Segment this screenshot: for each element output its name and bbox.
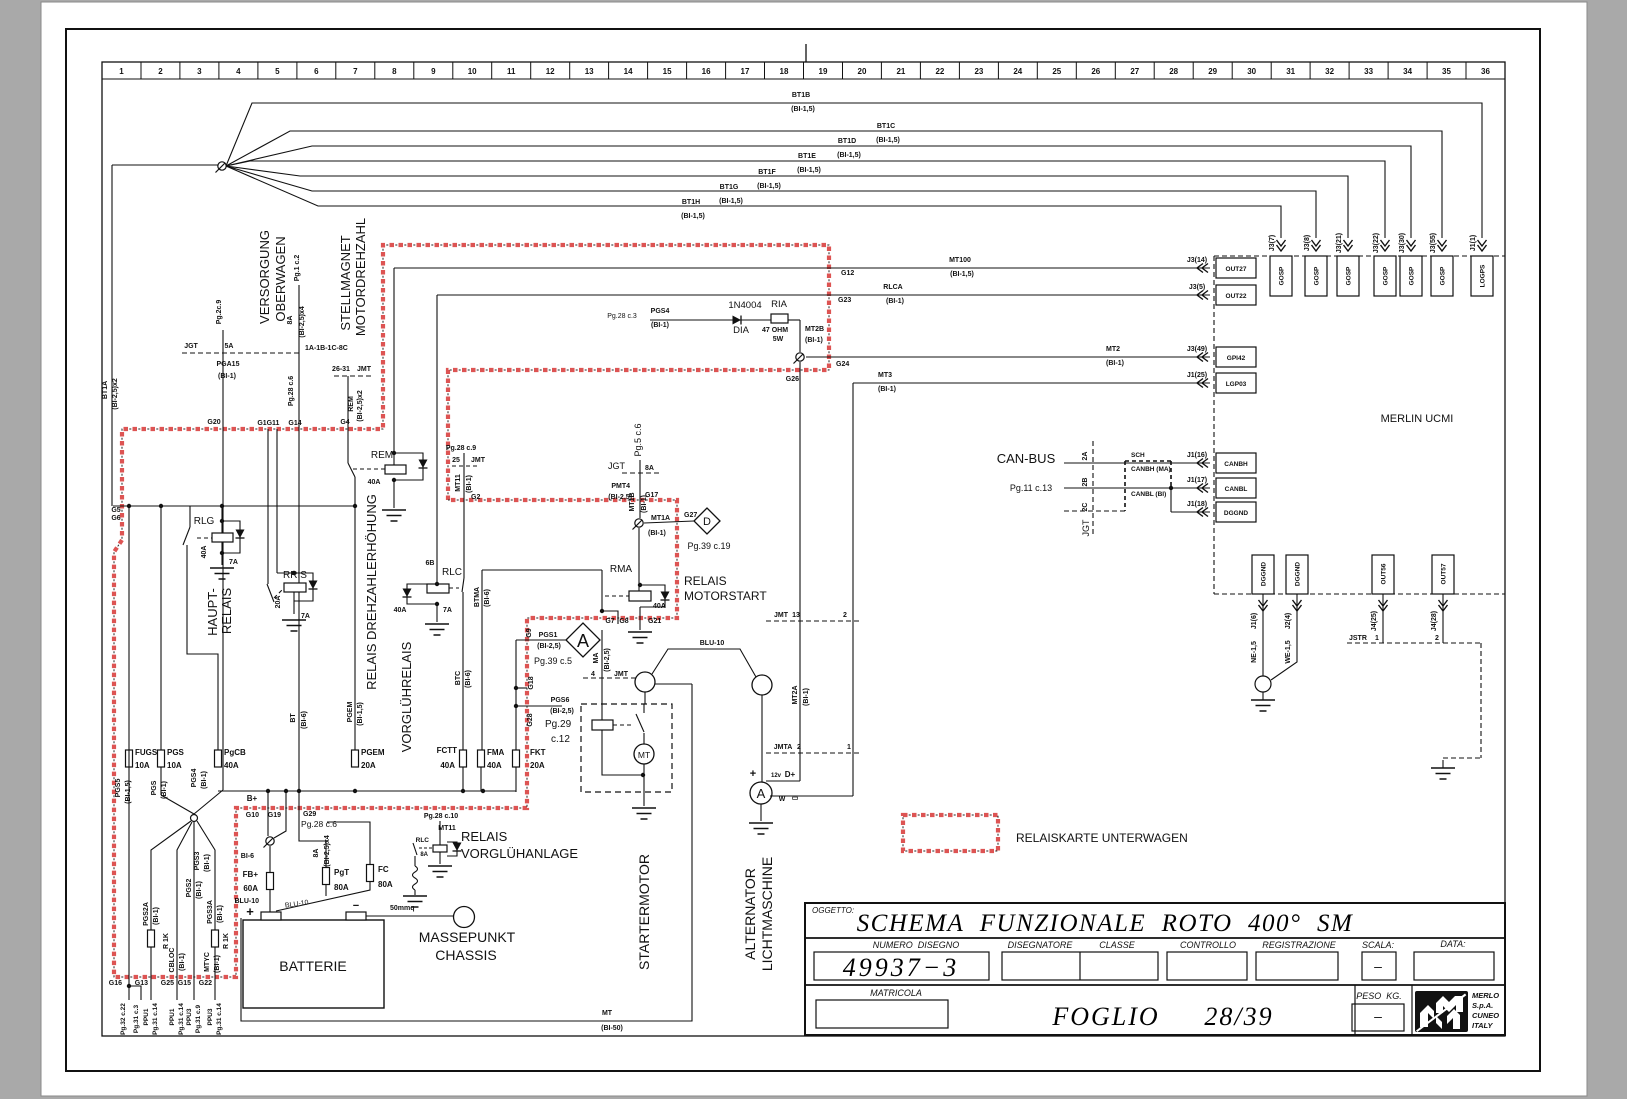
svg-text:G5: G5	[111, 507, 120, 514]
svg-text:G11: G11	[267, 420, 280, 427]
svg-text:+: +	[246, 904, 254, 919]
svg-text:BATTERIE: BATTERIE	[279, 958, 346, 974]
svg-text:Pg.2c.9: Pg.2c.9	[216, 300, 223, 325]
svg-text:MT2: MT2	[1106, 346, 1120, 353]
svg-text:REGISTRAZIONE: REGISTRAZIONE	[1262, 940, 1337, 950]
svg-text:DGGND: DGGND	[1295, 562, 1302, 587]
svg-text:MT: MT	[638, 750, 650, 760]
svg-text:GOSP: GOSP	[1314, 266, 1321, 285]
svg-text:G21: G21	[648, 618, 661, 625]
svg-text:OUT57: OUT57	[1441, 563, 1448, 584]
svg-text:(BI-1,5): (BI-1,5)	[797, 167, 821, 174]
svg-text:31: 31	[1286, 67, 1295, 76]
svg-text:RELAIS: RELAIS	[684, 574, 727, 588]
svg-text:J2(4): J2(4)	[1285, 613, 1292, 629]
svg-text:80A: 80A	[334, 883, 349, 892]
svg-text:J3(8): J3(8)	[1304, 235, 1311, 251]
svg-text:(BI-1): (BI-1)	[886, 298, 904, 305]
svg-text:5: 5	[275, 67, 280, 76]
svg-text:28/39: 28/39	[1204, 1002, 1273, 1031]
svg-text:20A: 20A	[275, 596, 282, 609]
svg-text:PGS2: PGS2	[186, 879, 193, 898]
svg-text:Pg.31 c.3: Pg.31 c.3	[133, 1005, 140, 1034]
svg-text:30: 30	[1247, 67, 1256, 76]
svg-text:12: 12	[546, 67, 555, 76]
svg-text:32: 32	[1325, 67, 1334, 76]
svg-text:MT3: MT3	[878, 372, 892, 379]
svg-text:RLC: RLC	[442, 567, 462, 578]
svg-text:▭: ▭	[792, 795, 799, 802]
svg-text:2A: 2A	[1082, 452, 1089, 461]
svg-text:1N4004: 1N4004	[728, 300, 761, 311]
svg-text:40A: 40A	[201, 546, 208, 559]
svg-text:MTYC: MTYC	[204, 952, 211, 972]
svg-text:PGEM: PGEM	[347, 702, 354, 723]
svg-text:Pg.39 c.5: Pg.39 c.5	[534, 656, 572, 666]
svg-text:MATRICOLA: MATRICOLA	[870, 988, 922, 998]
svg-text:RELAISKARTE UNTERWAGEN: RELAISKARTE UNTERWAGEN	[1016, 831, 1188, 845]
svg-text:PPU3: PPU3	[207, 1008, 214, 1025]
svg-text:W: W	[779, 796, 786, 803]
svg-text:G14: G14	[288, 420, 301, 427]
svg-text:MT: MT	[602, 1010, 613, 1017]
svg-text:2: 2	[797, 744, 801, 751]
svg-text:D: D	[703, 516, 711, 528]
svg-text:MOTORDREHZAHL: MOTORDREHZAHL	[353, 218, 368, 336]
svg-text:G18: G18	[528, 676, 535, 689]
svg-text:CBLOC: CBLOC	[169, 948, 176, 973]
svg-text:(BI-6): (BI-6)	[484, 589, 491, 607]
svg-text:(BI-2,5): (BI-2,5)	[537, 643, 561, 650]
svg-text:J1(17): J1(17)	[1187, 477, 1207, 484]
svg-text:VORGLÜHANLAGE: VORGLÜHANLAGE	[461, 846, 578, 861]
svg-text:28: 28	[1169, 67, 1178, 76]
svg-text:Pg.29: Pg.29	[545, 719, 572, 730]
svg-text:(BI-1): (BI-1)	[204, 854, 211, 872]
svg-text:FKT: FKT	[530, 748, 546, 757]
svg-text:BTC: BTC	[455, 671, 462, 685]
svg-text:G6: G6	[111, 515, 120, 522]
svg-text:RLC: RLC	[416, 837, 430, 844]
svg-text:35: 35	[1442, 67, 1451, 76]
svg-text:GOSP: GOSP	[1409, 266, 1416, 285]
svg-text:G2: G2	[471, 494, 480, 501]
svg-text:OGGETTO:: OGGETTO:	[812, 906, 854, 915]
svg-text:G26: G26	[786, 376, 799, 383]
svg-text:80A: 80A	[378, 880, 393, 889]
svg-text:CLASSE: CLASSE	[1099, 940, 1136, 950]
svg-text:G24: G24	[836, 361, 849, 368]
svg-text:Pg.31 c.14: Pg.31 c.14	[216, 1003, 223, 1035]
svg-text:2: 2	[158, 67, 163, 76]
svg-text:13: 13	[585, 67, 594, 76]
svg-text:J3(49): J3(49)	[1187, 346, 1207, 353]
svg-text:PGS2A: PGS2A	[143, 902, 150, 926]
svg-text:BT1D: BT1D	[838, 138, 856, 145]
svg-text:G7: G7	[605, 618, 614, 625]
svg-text:MA: MA	[593, 653, 600, 664]
svg-text:1A-1B-1C-8C: 1A-1B-1C-8C	[305, 345, 348, 352]
svg-text:G23: G23	[838, 297, 851, 304]
svg-text:J3(55): J3(55)	[1430, 233, 1437, 253]
svg-text:(BI-1): (BI-1)	[201, 771, 208, 789]
svg-text:(BI-1,5): (BI-1,5)	[950, 271, 974, 278]
svg-text:J1(6): J1(6)	[1251, 613, 1258, 629]
svg-text:(BI-1,5): (BI-1,5)	[837, 152, 861, 159]
svg-text:18: 18	[780, 67, 789, 76]
svg-text:(BI-1,5): (BI-1,5)	[757, 183, 781, 190]
svg-text:GOSP: GOSP	[1383, 266, 1390, 285]
svg-text:BT1E: BT1E	[798, 153, 816, 160]
svg-text:PPU1: PPU1	[143, 1008, 150, 1025]
svg-text:G9: G9	[526, 628, 533, 637]
svg-text:MT2A: MT2A	[792, 685, 799, 704]
svg-text:Pg.39 c.19: Pg.39 c.19	[687, 541, 730, 551]
svg-text:G16: G16	[109, 980, 122, 987]
svg-text:PgT: PgT	[334, 868, 349, 877]
svg-text:2B: 2B	[1082, 478, 1089, 487]
svg-text:J1(16): J1(16)	[1187, 452, 1207, 459]
svg-text:NUMERO DISEGNO: NUMERO DISEGNO	[873, 940, 960, 950]
svg-text:(BI-1): (BI-1)	[805, 337, 823, 344]
svg-text:49937−3: 49937−3	[843, 953, 960, 982]
svg-text:G1: G1	[257, 420, 266, 427]
svg-text:DGGND: DGGND	[1224, 510, 1249, 517]
svg-text:CANBL: CANBL	[1225, 486, 1248, 493]
svg-text:J3(30): J3(30)	[1399, 233, 1406, 253]
svg-text:(BI-1): (BI-1)	[214, 955, 221, 973]
svg-text:2: 2	[843, 612, 847, 619]
svg-text:(BI-1): (BI-1)	[218, 373, 236, 380]
svg-text:PMT4: PMT4	[611, 483, 630, 490]
svg-text:JGT: JGT	[184, 343, 198, 350]
svg-text:25: 25	[1052, 67, 1061, 76]
svg-text:Pg.28 c.10: Pg.28 c.10	[424, 813, 458, 820]
svg-text:PPU1: PPU1	[169, 1008, 176, 1025]
svg-text:25: 25	[452, 457, 460, 464]
svg-text:19: 19	[819, 67, 828, 76]
svg-text:24: 24	[1013, 67, 1022, 76]
svg-text:40A: 40A	[440, 761, 455, 770]
svg-text:7A: 7A	[443, 607, 452, 614]
svg-text:G8: G8	[619, 618, 628, 625]
svg-text:PGS4: PGS4	[191, 769, 198, 788]
svg-text:5W: 5W	[773, 336, 784, 343]
svg-text:8A: 8A	[313, 849, 320, 858]
svg-text:DIA: DIA	[733, 325, 750, 336]
svg-text:27: 27	[1130, 67, 1139, 76]
svg-text:60A: 60A	[243, 884, 258, 893]
svg-text:–: –	[1374, 1008, 1382, 1024]
svg-text:(BI-1): (BI-1)	[651, 322, 669, 329]
svg-text:10A: 10A	[167, 761, 182, 770]
svg-text:(BI-1): (BI-1)	[648, 530, 666, 537]
svg-text:GOSP: GOSP	[1279, 266, 1286, 285]
svg-text:8: 8	[392, 67, 397, 76]
svg-text:(BI-1,5): (BI-1,5)	[876, 137, 900, 144]
svg-text:14: 14	[624, 67, 633, 76]
svg-text:G12: G12	[841, 270, 854, 277]
svg-text:G25: G25	[161, 980, 174, 987]
svg-text:7A: 7A	[301, 613, 310, 620]
svg-text:BT1B: BT1B	[792, 92, 810, 99]
svg-text:PGS3: PGS3	[194, 852, 201, 871]
svg-text:22: 22	[935, 67, 944, 76]
svg-text:2: 2	[1435, 635, 1439, 642]
svg-text:–: –	[1374, 958, 1382, 974]
svg-text:(BI-1): (BI-1)	[217, 905, 224, 923]
svg-text:R 1K: R 1K	[163, 933, 170, 949]
svg-text:(BI-1): (BI-1)	[179, 953, 186, 971]
svg-text:Pg.28 c.3: Pg.28 c.3	[607, 313, 637, 320]
svg-text:G28: G28	[527, 713, 534, 726]
svg-text:CHASSIS: CHASSIS	[435, 947, 496, 963]
svg-text:PESO KG.: PESO KG.	[1356, 991, 1402, 1001]
svg-text:MT1A: MT1A	[651, 515, 670, 522]
svg-text:S.p.A.: S.p.A.	[1472, 1001, 1493, 1010]
svg-text:J4(25): J4(25)	[1371, 611, 1378, 631]
svg-text:A: A	[577, 631, 589, 651]
svg-text:MT100: MT100	[949, 257, 971, 264]
svg-text:2C: 2C	[1082, 503, 1089, 512]
svg-text:Pg.1 c.2: Pg.1 c.2	[294, 255, 301, 282]
svg-text:(BI-2,5)x2: (BI-2,5)x2	[112, 378, 119, 410]
svg-text:47 OHM: 47 OHM	[762, 327, 788, 334]
svg-text:(BI-6): (BI-6)	[301, 711, 308, 729]
svg-text:PGS6: PGS6	[551, 697, 570, 704]
svg-text:1: 1	[119, 67, 124, 76]
svg-text:16: 16	[702, 67, 711, 76]
svg-text:MERLIN UCMI: MERLIN UCMI	[1381, 413, 1454, 425]
svg-text:(BI-2,5)x2: (BI-2,5)x2	[357, 390, 364, 422]
svg-text:JMT: JMT	[357, 366, 372, 373]
svg-text:ALTERNATOR: ALTERNATOR	[742, 868, 758, 960]
svg-text:(BI-1): (BI-1)	[803, 688, 810, 706]
svg-text:G27: G27	[684, 512, 697, 519]
svg-text:G20: G20	[207, 419, 220, 426]
svg-text:JMT: JMT	[774, 612, 789, 619]
svg-text:4: 4	[591, 671, 595, 678]
svg-text:FCTT: FCTT	[437, 746, 458, 755]
svg-text:SCHEMA FUNZIONALE ROTO 400°: SCHEMA FUNZIONALE ROTO 400° SM	[857, 910, 1354, 937]
svg-text:PGS: PGS	[167, 748, 185, 757]
svg-text:REM: REM	[371, 450, 393, 461]
svg-text:PGS3A: PGS3A	[207, 900, 214, 924]
svg-text:J3(14): J3(14)	[1187, 257, 1207, 264]
svg-text:A: A	[757, 786, 766, 801]
svg-text:5A: 5A	[225, 343, 234, 350]
svg-text:R 1K: R 1K	[223, 933, 230, 949]
svg-text:FB+: FB+	[243, 870, 259, 879]
svg-text:3: 3	[197, 67, 202, 76]
svg-text:(BI-1): (BI-1)	[153, 907, 160, 925]
svg-text:J1(25): J1(25)	[1187, 372, 1207, 379]
svg-text:Pg.11 c.13: Pg.11 c.13	[1010, 483, 1052, 493]
svg-text:CANBL (BI): CANBL (BI)	[1131, 491, 1166, 498]
svg-text:40A: 40A	[394, 607, 407, 614]
svg-text:JSTR: JSTR	[1349, 635, 1367, 642]
svg-text:PGS1: PGS1	[539, 632, 558, 639]
svg-text:Pg.5 c.6: Pg.5 c.6	[633, 423, 643, 456]
svg-text:(BI-50): (BI-50)	[601, 1025, 623, 1032]
svg-text:29: 29	[1208, 67, 1217, 76]
svg-text:JMTA: JMTA	[774, 744, 793, 751]
svg-text:(BI-1,5): (BI-1,5)	[681, 213, 705, 220]
svg-text:PGA15: PGA15	[217, 361, 240, 368]
svg-text:40A: 40A	[653, 603, 666, 610]
svg-text:26: 26	[1091, 67, 1100, 76]
svg-text:CANBH: CANBH	[1224, 461, 1248, 468]
svg-text:FMA: FMA	[487, 748, 505, 757]
svg-text:PGS4: PGS4	[651, 308, 670, 315]
svg-text:RIA: RIA	[771, 299, 788, 310]
svg-text:40A: 40A	[368, 479, 381, 486]
svg-text:10A: 10A	[135, 761, 150, 770]
svg-text:SCALA:: SCALA:	[1362, 940, 1395, 950]
svg-text:1: 1	[847, 744, 851, 751]
svg-text:Pg.28 c.9: Pg.28 c.9	[446, 445, 476, 452]
svg-text:12v: 12v	[771, 773, 782, 779]
svg-text:JGT: JGT	[1081, 519, 1091, 537]
svg-text:CANBH (MA): CANBH (MA)	[1131, 466, 1171, 473]
svg-text:FOGLIO: FOGLIO	[1051, 1002, 1159, 1031]
svg-text:(BI-2,5): (BI-2,5)	[550, 708, 574, 715]
svg-text:WE-1,5: WE-1,5	[1285, 640, 1292, 663]
svg-text:G19: G19	[268, 812, 281, 819]
svg-text:STELLMAGNET: STELLMAGNET	[338, 235, 353, 330]
svg-text:RLG: RLG	[194, 516, 215, 527]
svg-text:OBERWAGEN: OBERWAGEN	[273, 236, 288, 321]
svg-text:MERLO: MERLO	[1472, 991, 1499, 1000]
svg-text:+: +	[750, 768, 756, 780]
svg-text:4: 4	[236, 67, 241, 76]
svg-text:BT1G: BT1G	[720, 184, 739, 191]
svg-text:8A: 8A	[645, 465, 654, 472]
svg-text:(BI-1,5): (BI-1,5)	[357, 702, 364, 726]
svg-text:J3(5): J3(5)	[1189, 284, 1205, 291]
svg-text:9: 9	[431, 67, 436, 76]
svg-text:Pg.31 c.9: Pg.31 c.9	[195, 1005, 202, 1034]
svg-text:GOSP: GOSP	[1346, 266, 1353, 285]
svg-text:Pg.32 c.22: Pg.32 c.22	[120, 1003, 127, 1035]
svg-text:(BI-1): (BI-1)	[161, 781, 168, 799]
svg-text:SCH: SCH	[1131, 452, 1145, 459]
svg-text:20A: 20A	[530, 761, 545, 770]
svg-text:OUT22: OUT22	[1226, 293, 1247, 300]
svg-text:(BI-1): (BI-1)	[878, 386, 896, 393]
svg-text:BTMA: BTMA	[474, 587, 481, 607]
svg-text:8A: 8A	[420, 852, 428, 858]
svg-text:JMT: JMT	[471, 457, 486, 464]
svg-text:G22: G22	[199, 980, 212, 987]
svg-text:(BI-1,5): (BI-1,5)	[791, 106, 815, 113]
svg-text:MT2B: MT2B	[805, 326, 824, 333]
svg-text:MT11: MT11	[438, 825, 456, 832]
svg-text:FC: FC	[378, 865, 389, 874]
svg-text:26-31: 26-31	[332, 366, 350, 373]
svg-text:PPU3: PPU3	[186, 1008, 193, 1025]
svg-text:ITALY: ITALY	[1472, 1021, 1494, 1030]
svg-text:J3(22): J3(22)	[1373, 233, 1380, 253]
svg-text:Pg.31 c.14: Pg.31 c.14	[178, 1003, 185, 1035]
svg-text:(BI-1): (BI-1)	[1106, 360, 1124, 367]
svg-text:6B: 6B	[426, 560, 435, 567]
svg-text:7: 7	[353, 67, 358, 76]
svg-text:B+: B+	[247, 794, 258, 803]
svg-text:50mmq: 50mmq	[390, 905, 415, 912]
svg-text:BI-6: BI-6	[241, 853, 254, 860]
svg-text:VERSORGUNG: VERSORGUNG	[257, 230, 272, 324]
svg-text:RELAIS DREHZAHLERHÖHUNG: RELAIS DREHZAHLERHÖHUNG	[364, 494, 379, 690]
svg-text:OUT56: OUT56	[1381, 563, 1388, 584]
svg-text:D+: D+	[785, 770, 796, 779]
svg-text:33: 33	[1364, 67, 1373, 76]
svg-text:(BI-1): (BI-1)	[641, 495, 648, 513]
svg-text:GPI42: GPI42	[1227, 355, 1246, 362]
svg-text:J1(18): J1(18)	[1187, 501, 1207, 508]
svg-text:Pg.28 c.6: Pg.28 c.6	[288, 376, 295, 406]
svg-text:HAUPT-: HAUPT-	[205, 588, 220, 636]
svg-text:Pg.31 c.14: Pg.31 c.14	[152, 1003, 159, 1035]
svg-text:8A: 8A	[287, 316, 294, 325]
svg-text:VORGLÜHRELAIS: VORGLÜHRELAIS	[399, 641, 414, 752]
svg-text:J1(1): J1(1)	[1470, 235, 1477, 251]
svg-text:PGEM: PGEM	[361, 748, 385, 757]
svg-text:MASSEPUNKT: MASSEPUNKT	[419, 929, 516, 945]
svg-text:JGT: JGT	[608, 461, 626, 471]
svg-text:RELAIS: RELAIS	[461, 829, 508, 844]
svg-text:(BI-2,5)x4: (BI-2,5)x4	[324, 835, 331, 867]
svg-text:(BI-2,5): (BI-2,5)	[604, 648, 611, 672]
svg-text:20A: 20A	[361, 761, 376, 770]
svg-text:(BI-6): (BI-6)	[465, 670, 472, 688]
svg-text:RMA: RMA	[610, 564, 633, 575]
svg-text:REM: REM	[348, 396, 355, 412]
svg-text:(BI-1,5): (BI-1,5)	[719, 198, 743, 205]
svg-text:10: 10	[468, 67, 477, 76]
svg-text:36: 36	[1481, 67, 1490, 76]
svg-text:CUNEO: CUNEO	[1472, 1011, 1499, 1020]
svg-text:G15: G15	[178, 980, 191, 987]
svg-text:CONTROLLO: CONTROLLO	[1180, 940, 1236, 950]
svg-text:RELAIS: RELAIS	[219, 588, 234, 635]
svg-text:34: 34	[1403, 67, 1412, 76]
svg-text:J4(28): J4(28)	[1431, 611, 1438, 631]
svg-text:20: 20	[858, 67, 867, 76]
svg-text:Pg.28 c.6: Pg.28 c.6	[301, 819, 337, 829]
svg-text:STARTERMOTOR: STARTERMOTOR	[636, 854, 652, 970]
svg-text:−: −	[353, 900, 359, 912]
svg-text:7A: 7A	[229, 559, 238, 566]
svg-text:LGP03: LGP03	[1226, 381, 1247, 388]
svg-text:1: 1	[1375, 635, 1379, 642]
svg-text:(BI-2,5)x4: (BI-2,5)x4	[299, 306, 306, 338]
svg-text:LICHTMASCHINE: LICHTMASCHINE	[759, 857, 775, 971]
svg-text:MT1B: MT1B	[629, 492, 636, 511]
svg-text:DATA:: DATA:	[1440, 939, 1466, 949]
svg-text:MOTORSTART: MOTORSTART	[684, 589, 767, 603]
svg-text:GOSP: GOSP	[1440, 266, 1447, 285]
svg-text:CAN-BUS: CAN-BUS	[997, 451, 1056, 466]
svg-text:6: 6	[314, 67, 319, 76]
svg-text:(BI-1): (BI-1)	[466, 475, 473, 493]
svg-text:J3(21): J3(21)	[1336, 233, 1343, 253]
svg-text:G10: G10	[246, 812, 259, 819]
svg-text:BT1A: BT1A	[102, 381, 109, 399]
svg-text:15: 15	[663, 67, 672, 76]
svg-text:JMT: JMT	[614, 671, 629, 678]
svg-text:LOGPS: LOGPS	[1480, 264, 1487, 287]
